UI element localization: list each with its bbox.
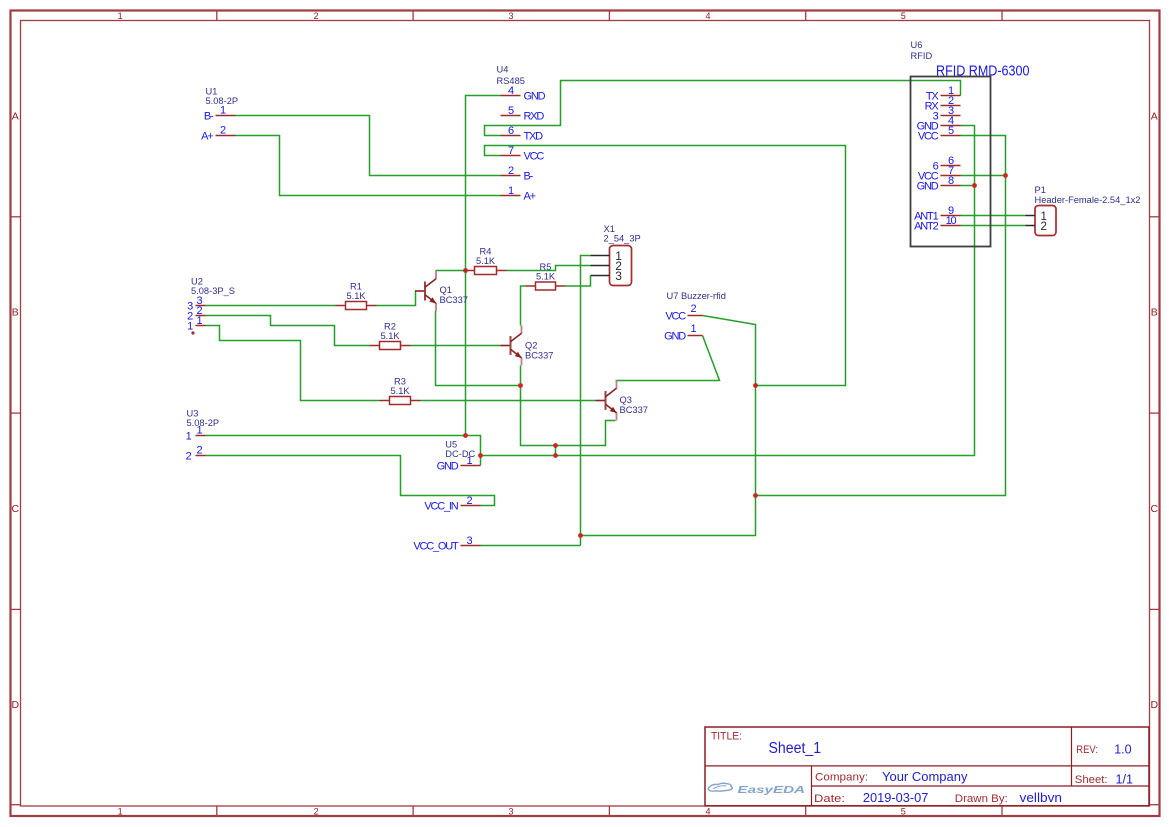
- wire U3 pin1 to ground node (465,435): [206, 435, 466, 437]
- svg-text:4: 4: [705, 11, 710, 21]
- right ruler letters A-D: [1151, 110, 1159, 711]
- resistor R5 5.1K: [526, 262, 566, 290]
- svg-text:B: B: [1151, 307, 1158, 319]
- wire R2 to Q2 base: [411, 345, 501, 347]
- bottom ruler numbers 1-5: [118, 807, 906, 817]
- svg-text:GND: GND: [664, 330, 686, 342]
- svg-text:4: 4: [705, 807, 710, 817]
- wire R1 to Q1 base: [377, 291, 416, 306]
- right ruler ticks: [1150, 217, 1160, 805]
- connector X1 2_54_3P: [591, 224, 641, 286]
- title block outline: [705, 727, 1149, 806]
- module U6 RFID RMD-6300 body: [911, 77, 991, 247]
- wire U2 pin2 to R2: [206, 316, 370, 346]
- transistor Q1 BC337: [415, 271, 468, 311]
- svg-text:REV:: REV:: [1076, 744, 1098, 756]
- svg-text:EasyEDA: EasyEDA: [738, 785, 806, 796]
- svg-text:U5: U5: [445, 440, 457, 450]
- svg-text:1: 1: [118, 11, 123, 21]
- connector U3 5.08-2P: [186, 409, 219, 463]
- svg-text:2: 2: [314, 807, 319, 817]
- wire R5 left to Q2 collector: [521, 286, 526, 326]
- left ruler letters A-D: [12, 110, 20, 711]
- svg-text:GND: GND: [437, 460, 459, 472]
- wire ground rail U5 to U6 pin4: [481, 126, 975, 456]
- title block divider under TITLE row: [705, 765, 1149, 767]
- resistor R3 5.1K: [380, 377, 421, 405]
- wire Q2 emitter down to Q3 emitter: [521, 366, 616, 446]
- resistor R2 5.1K: [370, 322, 411, 350]
- wire U4 GND vertical rail to node at (465,435): [466, 96, 501, 436]
- wire U6 ANT2 to P1 pin2: [961, 225, 1026, 227]
- junction at (1005,175): [1003, 173, 1008, 178]
- svg-text:U2: U2: [191, 277, 203, 287]
- svg-text:3: 3: [508, 807, 513, 817]
- junction at (465,270): [463, 268, 468, 273]
- wire U6 pin7 to VCC rail: [961, 175, 1006, 177]
- svg-text:ANT2: ANT2: [914, 220, 938, 232]
- svg-text:C: C: [12, 503, 20, 515]
- net flag VCC_OUT (pin 3): [413, 535, 480, 552]
- wire Q1 collector to node (465,270): [436, 270, 466, 272]
- junction at (555,445): [553, 443, 558, 448]
- svg-text:5.1K: 5.1K: [346, 291, 366, 301]
- svg-text:3: 3: [508, 11, 513, 21]
- svg-text:Q1: Q1: [440, 285, 452, 295]
- svg-text:1/1: 1/1: [1116, 772, 1134, 787]
- EasyEDA logo cloud glyph: [708, 783, 732, 791]
- svg-text:5.08-2P: 5.08-2P: [187, 418, 220, 428]
- wire stub joining emitter rail to ground rail: [555, 446, 557, 456]
- svg-text:BC337: BC337: [525, 351, 553, 361]
- svg-text:VCC: VCC: [665, 310, 686, 322]
- top ruler numbers 1-5: [118, 11, 906, 21]
- svg-text:R3: R3: [394, 377, 406, 387]
- svg-text:A: A: [1151, 110, 1158, 122]
- svg-text:VCC_OUT: VCC_OUT: [413, 540, 459, 552]
- junction at (520,385): [518, 383, 523, 388]
- svg-text:Header-Female-2.54_1x2: Header-Female-2.54_1x2: [1035, 195, 1141, 205]
- title block vertical divider left of logo cell: [811, 766, 813, 806]
- svg-text:R5: R5: [540, 262, 552, 272]
- connector U4 RS485: [497, 65, 546, 203]
- wire node (465,435) to U5 GND pin: [466, 436, 481, 466]
- svg-text:5.1K: 5.1K: [536, 272, 556, 282]
- svg-text:U7 Buzzer-rfid: U7 Buzzer-rfid: [667, 291, 726, 301]
- svg-text:BC337: BC337: [620, 405, 648, 415]
- svg-text:R2: R2: [384, 322, 396, 332]
- wire U2 pin3 to R1: [206, 305, 336, 307]
- svg-text:5: 5: [901, 807, 906, 817]
- svg-text:vellbvn: vellbvn: [1020, 791, 1063, 805]
- svg-text:GND: GND: [917, 180, 939, 192]
- svg-text:5.1K: 5.1K: [380, 331, 400, 341]
- svg-text:Date:: Date:: [814, 793, 845, 805]
- svg-text:D: D: [12, 699, 20, 711]
- svg-text:2: 2: [314, 11, 319, 21]
- svg-text:10: 10: [946, 215, 957, 227]
- connector U2 5.08-3P_S: [187, 277, 235, 333]
- junction at (755,385): [753, 383, 758, 388]
- svg-text:Q2: Q2: [525, 341, 537, 351]
- svg-text:Sheet:: Sheet:: [1075, 774, 1108, 786]
- wire U4 VCC to node (755,385): [485, 146, 846, 386]
- svg-text:VCC: VCC: [524, 150, 545, 162]
- junction at (580,535): [578, 533, 583, 538]
- wire VCC_OUT to vertical rail: [481, 545, 581, 547]
- wire Q1 emitter to node (520,385): [436, 311, 521, 386]
- svg-text:Sheet_1: Sheet_1: [769, 740, 822, 757]
- svg-text:U1: U1: [206, 87, 218, 97]
- junction at (465,435): [463, 433, 468, 438]
- wire U6 pin5 VCC rail to node (755,495): [756, 136, 1006, 496]
- U2 pin1 polarity dot: [191, 331, 194, 334]
- U6 pins: [914, 85, 960, 232]
- svg-text:Drawn By:: Drawn By:: [955, 793, 1008, 805]
- net flag VCC_IN (pin 2): [424, 495, 480, 512]
- connector U1 5.08-2P: [201, 87, 238, 143]
- svg-text:C: C: [1151, 503, 1159, 515]
- svg-text:R1: R1: [350, 282, 362, 292]
- junction at (755,495): [753, 493, 758, 498]
- svg-text:U3: U3: [187, 409, 199, 419]
- wire R5 right to X1 pin3: [566, 276, 591, 287]
- junction at (555,455): [553, 453, 558, 458]
- svg-text:TITLE:: TITLE:: [711, 730, 742, 742]
- svg-text:2_54_3P: 2_54_3P: [604, 234, 641, 244]
- top ruler ticks: [217, 11, 1002, 21]
- resistor R4 5.1K: [465, 247, 507, 275]
- junction at (480,455): [478, 453, 483, 458]
- bottom ruler ticks: [217, 806, 1002, 816]
- svg-text:3: 3: [615, 269, 622, 283]
- svg-text:Q3: Q3: [620, 395, 632, 405]
- wire U1 B- to U4 pin2: [236, 116, 501, 176]
- svg-text:U4: U4: [497, 65, 509, 75]
- wire U6 ANT1 to P1 pin1: [961, 215, 1026, 217]
- svg-text:Your Company: Your Company: [882, 770, 968, 784]
- resistor R1 5.1K: [336, 282, 377, 310]
- svg-text:A: A: [12, 110, 19, 122]
- svg-text:RFID RMD-6300: RFID RMD-6300: [936, 64, 1030, 80]
- wire U3 pin2 to VCC_IN: [206, 456, 495, 506]
- svg-text:B: B: [12, 307, 19, 319]
- svg-text:U6: U6: [911, 40, 923, 50]
- svg-text:5.1K: 5.1K: [476, 256, 496, 266]
- module U5 DC-DC: [437, 440, 481, 473]
- svg-text:A+: A+: [201, 130, 213, 142]
- svg-text:Company:: Company:: [815, 772, 868, 784]
- svg-text:1.0: 1.0: [1114, 742, 1131, 757]
- left ruler ticks: [11, 217, 21, 805]
- connector P1 Header-Female-2.54_1x2: [1026, 185, 1141, 236]
- svg-text:2019-03-07: 2019-03-07: [863, 791, 929, 805]
- junction at (974,185): [972, 183, 977, 188]
- svg-text:5.1K: 5.1K: [390, 386, 410, 396]
- svg-text:GND: GND: [524, 90, 546, 102]
- wire U1 A+ to U4 pin1: [236, 136, 501, 196]
- transistor Q3 BC337: [596, 381, 648, 421]
- svg-text:P1: P1: [1035, 185, 1046, 195]
- wire node (580,535) to U7 VCC: [581, 316, 756, 536]
- wire X1 pin1 vertical rail to VCC_OUT: [581, 256, 591, 546]
- title block divider between Company and Date rows: [812, 785, 1150, 787]
- title block vertical divider for REV/Sheet column: [1071, 727, 1073, 786]
- svg-text:X1: X1: [604, 224, 615, 234]
- wire R4 to X1 pin2: [507, 266, 591, 271]
- svg-text:1: 1: [118, 807, 123, 817]
- wire U4 TXD to U6 TX: [485, 81, 961, 136]
- svg-text:D: D: [1151, 699, 1159, 711]
- part U7 Buzzer-rfid: [664, 291, 726, 342]
- svg-text:VCC_IN: VCC_IN: [424, 500, 458, 512]
- svg-text:2: 2: [1041, 221, 1047, 233]
- wire R3 to Q3 base: [421, 400, 596, 402]
- svg-text:VCC: VCC: [918, 130, 939, 142]
- svg-text:TXD: TXD: [524, 130, 544, 142]
- svg-text:R4: R4: [480, 247, 492, 257]
- svg-text:RXD: RXD: [524, 110, 545, 122]
- wire U2 pin1 to R3: [206, 326, 380, 401]
- svg-text:RFID: RFID: [911, 51, 933, 61]
- wire U6 pin8 to ground rail: [961, 185, 975, 187]
- svg-text:BC337: BC337: [440, 295, 468, 305]
- U6 designator and value labels: [911, 40, 933, 61]
- transistor Q2 BC337: [501, 326, 554, 366]
- svg-text:5: 5: [901, 11, 906, 21]
- svg-text:A+: A+: [524, 190, 536, 202]
- wire U7 GND to Q3 collector: [616, 336, 720, 381]
